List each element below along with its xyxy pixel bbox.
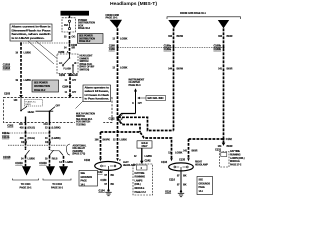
label POWER DISTRIBUTION BOX	[78, 19, 95, 30]
wire A lower	[25, 156, 27, 167]
svg-text:C242: C242	[21, 141, 28, 144]
svg-text:C1018: C1018	[39, 162, 47, 165]
svg-text:C134: C134	[161, 161, 168, 164]
triangle connector A (right feed)	[218, 20, 229, 28]
wire value 13 LG/BK	[45, 137, 61, 140]
svg-text:C241: C241	[45, 141, 52, 144]
svg-text:HEADLAMP: HEADLAMP	[123, 164, 136, 167]
wire left lamp ground	[108, 170, 110, 190]
arrow from note box to wire	[137, 97, 146, 99]
wire left low beam feed	[173, 28, 175, 130]
svg-text:PASS: PASS	[26, 103, 32, 106]
svg-text:MULTI-FUNCTION: MULTI-FUNCTION	[76, 113, 95, 115]
svg-text:SEE: SEE	[81, 173, 86, 175]
svg-text:30A: 30A	[64, 24, 68, 27]
svg-text:FLASH: FLASH	[64, 68, 72, 71]
wire left branch down	[20, 43, 22, 95]
svg-text:RIGHT: RIGHT	[195, 162, 203, 164]
svg-text:PAGE 10-2: PAGE 10-2	[78, 27, 91, 30]
svg-text:C202: C202	[7, 125, 14, 128]
svg-text:PAGE: PAGE	[199, 186, 206, 189]
triangle connector B	[46, 166, 55, 175]
wire branch to indicator	[118, 114, 136, 118]
flash-to-pass dashed box	[25, 100, 43, 107]
ground G104	[105, 189, 111, 195]
svg-text:(SHOWN): (SHOWN)	[73, 151, 83, 153]
wire main down to left headlamp	[117, 118, 119, 158]
svg-text:PAGE 10-2: PAGE 10-2	[79, 40, 91, 43]
wire indicator riser	[135, 91, 137, 114]
svg-text:BK/R: BK/R	[227, 67, 233, 70]
bracket under A	[13, 179, 39, 181]
wire stub pin A inside box	[25, 117, 27, 123]
svg-text:C264: C264	[62, 86, 69, 89]
ground G116	[178, 190, 184, 196]
wire value 19 R/LB (B)	[45, 158, 58, 161]
arrow into left headlamp pin 1	[99, 158, 102, 161]
right headlamp bulb	[169, 163, 194, 171]
svg-text:LG/BK: LG/BK	[28, 158, 36, 161]
label INSTRUMENT CLUSTER	[129, 79, 145, 87]
note box: alarm current	[10, 24, 52, 41]
switch symbol in wire A	[25, 148, 30, 156]
svg-text:LG/BK: LG/BK	[120, 139, 128, 142]
svg-text:DRL RELAY: DRL RELAY	[73, 147, 86, 150]
svg-text:O/Y: O/Y	[72, 79, 76, 82]
leader line to dimmer switch	[36, 41, 57, 58]
svg-text:TO C104: TO C104	[52, 183, 62, 186]
svg-text:C1018: C1018	[3, 156, 11, 159]
svg-text:C132: C132	[226, 138, 233, 141]
svg-text:BR: BR	[72, 47, 76, 50]
wire B upper	[49, 123, 51, 149]
svg-text:is in HEAD position.: is in HEAD position.	[12, 37, 46, 40]
node right feed junction	[222, 138, 224, 140]
svg-text:RUNNING: RUNNING	[230, 154, 241, 156]
label MULTI-FUNCTION SWITCH	[75, 112, 104, 127]
svg-text:(O/LG): (O/LG)	[28, 126, 36, 129]
label RIGHT HEADLAMP	[195, 162, 208, 167]
label FROM C268 PAGE 10-1	[106, 14, 120, 20]
svg-text:select HI beam,: select HI beam,	[85, 90, 110, 93]
wire value 106 BK/W	[168, 35, 184, 38]
wire value 8 O/Y	[132, 102, 142, 105]
svg-text:function, when switch: function, when switch	[12, 33, 52, 36]
wire value 141 BK/R	[183, 149, 198, 152]
power label HOT AT ALL TIMES	[61, 11, 90, 16]
svg-text:FOR SWITCH: FOR SWITCH	[76, 122, 91, 124]
label DAYTIME RUNNING LAMPS MODULE	[135, 172, 147, 194]
svg-text:C1016: C1016	[3, 67, 11, 70]
wire value 13 LG/BK	[45, 126, 61, 129]
svg-text:(LG/BK): (LG/BK)	[52, 137, 61, 140]
svg-text:C110b: C110b	[2, 136, 10, 139]
wire branch lower to high beams	[118, 118, 141, 132]
svg-text:PAGE 10-1: PAGE 10-1	[20, 187, 33, 190]
triangle connector C	[59, 166, 68, 175]
wire value 11 O/Y	[65, 91, 77, 94]
svg-text:106: 106	[218, 35, 223, 38]
wire right low feed horizontal	[189, 138, 224, 140]
leader line to dimmer switch 2	[28, 41, 54, 64]
svg-text:C150: C150	[100, 179, 107, 182]
svg-text:(PAGE 10-1): (PAGE 10-1)	[80, 63, 93, 66]
wire A upper	[25, 123, 27, 149]
svg-text:to Pass functions.: to Pass functions.	[85, 97, 110, 100]
node main/connector	[117, 47, 119, 49]
arrow into right headlamp pin 1	[170, 158, 173, 161]
svg-text:HEADLIGHT: HEADLIGHT	[80, 55, 94, 58]
svg-text:ADDITIONAL: ADDITIONAL	[73, 144, 87, 147]
connector label C269 pin B HI-BEAM	[59, 74, 78, 77]
wire fuse to dimmer switch	[69, 32, 71, 54]
svg-text:(DRL): (DRL)	[135, 184, 141, 186]
svg-text:BK: BK	[183, 184, 187, 187]
wire right low feed drop	[188, 139, 190, 158]
svg-text:HEAD: HEAD	[28, 111, 35, 114]
svg-text:C116: C116	[169, 178, 175, 181]
note box SEE GROUNDS (right)	[197, 177, 213, 195]
triangle connector A	[22, 166, 31, 175]
svg-text:LAMPS: LAMPS	[135, 179, 143, 182]
svg-text:HOT AT ALL TIMES: HOT AT ALL TIMES	[62, 12, 87, 16]
wire value 106 BK/R	[218, 35, 233, 38]
connector line (dashed) across three feeds	[118, 47, 224, 49]
svg-text:C169b: C169b	[213, 48, 221, 51]
svg-text:SWITCH: SWITCH	[80, 61, 89, 63]
wire value 416 O/LG	[20, 137, 35, 140]
wire value 12 LG/BK	[168, 151, 182, 154]
arrow to instrument cluster	[134, 88, 137, 91]
wire value 11 BK (C)	[59, 161, 73, 164]
svg-text:(LG/BK): (LG/BK)	[52, 126, 61, 129]
svg-text:416: 416	[20, 126, 25, 129]
label TO C104	[20, 183, 33, 190]
svg-text:MODULE: MODULE	[230, 161, 240, 163]
wire value 57 BK	[104, 174, 114, 177]
svg-text:BK/R: BK/R	[192, 149, 198, 152]
node junction fuse wire / connector	[69, 42, 71, 44]
DRL module dashed box (left)	[133, 164, 153, 195]
connector labels C168b C169b	[213, 44, 221, 51]
wire C lower	[63, 156, 65, 166]
svg-text:LG/BK: LG/BK	[120, 67, 128, 70]
connector labels C110a C110b	[2, 132, 10, 139]
svg-text:RUNNING: RUNNING	[135, 177, 146, 179]
node A/connector	[25, 132, 27, 134]
svg-text:OFF: OFF	[56, 106, 61, 108]
brace symbol	[66, 144, 70, 155]
indicator note box	[146, 96, 166, 101]
note text DRL relay	[73, 144, 87, 155]
label LEFT HEADLAMP	[123, 162, 136, 167]
svg-text:PAGE 17-2: PAGE 17-2	[135, 191, 147, 194]
note box SEE POWER DISTRIBUTION (right)	[78, 34, 104, 44]
svg-text:LG/BK: LG/BK	[175, 151, 183, 154]
node main wire crossing bus	[116, 131, 118, 133]
wire value 141 BK/R	[218, 145, 233, 148]
svg-text:BULB: BULB	[141, 143, 148, 145]
switch symbol in wire B with link to C	[49, 148, 64, 156]
wire B lower	[49, 156, 51, 167]
wire value 144 BK/W	[168, 67, 184, 70]
connector line long (dashed)	[8, 144, 66, 146]
wire value 19 LG/BK	[15, 52, 31, 55]
svg-text:BK/PK: BK/PK	[103, 139, 111, 142]
svg-text:G104: G104	[99, 189, 106, 192]
svg-text:C132: C132	[109, 117, 116, 120]
note box SEE GROUNDS (left)	[79, 171, 98, 187]
wire dimmer to multifunction switch	[69, 73, 71, 95]
svg-text:PAGE 60-4: PAGE 60-4	[129, 84, 142, 87]
node B/connector	[49, 132, 51, 134]
wire high beam bus left	[101, 132, 172, 158]
connector labels C168a C169a	[164, 44, 172, 51]
wire value 196 BK/PK	[95, 139, 111, 142]
svg-text:R/LB: R/LB	[52, 158, 58, 161]
switch contact OFF	[49, 106, 61, 112]
svg-text:GROUNDS: GROUNDS	[81, 177, 93, 179]
svg-text:LG/BK: LG/BK	[145, 155, 153, 158]
svg-text:PAGE 10-2: PAGE 10-2	[34, 89, 46, 92]
svg-text:C135: C135	[179, 159, 186, 162]
svg-text:(O/LG): (O/LG)	[28, 137, 36, 140]
svg-text:SEE POWER: SEE POWER	[34, 83, 48, 85]
svg-text:LG/BK: LG/BK	[24, 52, 32, 55]
label TO C104	[51, 183, 64, 190]
label DAYTIME RUNNING LAMPS MODULE	[230, 150, 245, 167]
wire value 14 BR	[64, 47, 75, 50]
arrow into left headlamp pin 2	[116, 158, 119, 161]
svg-text:DAYTIME: DAYTIME	[230, 150, 240, 153]
wire value 14 LG/BK (A)	[21, 158, 35, 161]
svg-text:C131: C131	[215, 148, 222, 151]
svg-text:C1018: C1018	[15, 162, 23, 165]
headlamp dimmer switch dashed box	[57, 54, 78, 73]
switch link wire	[36, 110, 54, 112]
wire left hi feed drop	[100, 132, 102, 158]
wire value 15 OG	[64, 35, 75, 38]
wire value 12 LG/BK	[112, 67, 127, 70]
svg-text:Alarm current in-flow is: Alarm current in-flow is	[12, 26, 52, 29]
svg-text:BK: BK	[111, 174, 115, 177]
node left feed/connector	[173, 47, 175, 49]
svg-text:(PAGE 17-2): (PAGE 17-2)	[73, 153, 86, 156]
connector line (dashed) across A and B	[2, 132, 50, 134]
svg-text:FROM C246 PAGE 10-1: FROM C246 PAGE 10-1	[180, 12, 206, 15]
svg-text:14-1: 14-1	[199, 190, 204, 193]
svg-text:LG/BK: LG/BK	[120, 38, 128, 41]
svg-text:BK/W: BK/W	[177, 35, 184, 38]
wire main high beam feed	[117, 28, 119, 118]
connector line C1008 (dashed)	[21, 42, 70, 44]
svg-text:PAGE 17-2: PAGE 17-2	[230, 164, 242, 167]
svg-text:C269: C269	[58, 51, 65, 54]
switch contact HEAD	[20, 98, 34, 114]
svg-text:C169: C169	[109, 48, 116, 51]
fuse F1 dashed box (power distribution box)	[62, 18, 76, 32]
wire value 57 BK	[177, 184, 187, 187]
pin arrow into switch box	[19, 95, 23, 98]
svg-text:B/C B/L IND: B/C B/L IND	[148, 98, 164, 100]
wire value 12 LG/BK	[112, 38, 127, 41]
svg-text:Headlamps (MBS-T): Headlamps (MBS-T)	[110, 1, 158, 6]
wire value 57 BK	[177, 174, 187, 177]
svg-text:196: 196	[95, 139, 100, 142]
svg-text:PAGE 10-1: PAGE 10-1	[51, 187, 64, 190]
svg-text:PAGE 10-1: PAGE 10-1	[106, 17, 119, 20]
svg-text:(PART OF M/F: (PART OF M/F	[80, 66, 95, 69]
svg-text:O/Y: O/Y	[138, 102, 142, 105]
triangle connector A (left feed)	[168, 20, 179, 28]
svg-text:PAGE: PAGE	[81, 180, 88, 183]
svg-text:O/Y: O/Y	[72, 91, 76, 94]
wire right low beam feed	[223, 28, 225, 142]
svg-text:C110a: C110a	[2, 132, 10, 135]
svg-text:G116: G116	[165, 190, 172, 193]
wire value 57 BK	[104, 183, 114, 186]
label HEADLIGHT DIMMER SWITCH	[80, 55, 95, 72]
wire value 12 LG/BK	[134, 155, 152, 158]
svg-text:DIMMER: DIMMER	[80, 58, 89, 60]
svg-text:BK: BK	[111, 183, 115, 186]
svg-text:Alarm operates to: Alarm operates to	[85, 87, 110, 90]
svg-text:SWITCH): SWITCH)	[80, 70, 90, 72]
node left wire top	[20, 42, 22, 44]
connector labels C1018 C1016	[3, 63, 11, 70]
svg-text:DISTRIBUTION: DISTRIBUTION	[79, 38, 95, 40]
svg-text:Dimmer/Flash to Pass: Dimmer/Flash to Pass	[12, 29, 52, 32]
wire bulb to DRL module	[141, 148, 143, 161]
arrow into right headlamp pin 2	[187, 158, 190, 161]
svg-text:BK/R: BK/R	[227, 145, 233, 148]
node right feed/connector	[223, 47, 225, 49]
wire value 141 BK/R	[218, 67, 233, 70]
left headlamp bulb	[95, 162, 122, 171]
bracket under B C	[43, 179, 71, 181]
svg-text:GROUNDS: GROUNDS	[199, 183, 211, 185]
connector labels C168 C169	[109, 44, 116, 51]
bracket over triangles	[167, 17, 241, 19]
svg-text:106: 106	[168, 35, 173, 38]
svg-text:LG/BK: LG/BK	[24, 79, 32, 82]
triangle connector A (top center)	[110, 20, 123, 28]
svg-text:OG: OG	[72, 35, 76, 38]
svg-text:C203: C203	[4, 92, 11, 95]
wire stub pin B inside box	[49, 111, 51, 122]
svg-text:14-1: 14-1	[81, 183, 86, 186]
wire value 11 O/Y	[65, 79, 77, 82]
svg-text:C242: C242	[145, 160, 152, 163]
svg-text:BK/R: BK/R	[227, 35, 233, 38]
svg-text:BK: BK	[183, 174, 187, 177]
svg-text:SEE POWER: SEE POWER	[79, 36, 93, 38]
junction arrow marks	[119, 115, 123, 124]
wire right lamp ground	[180, 171, 182, 191]
note box SEE POWER DISTRIBUTION (left)	[32, 80, 59, 92]
svg-text:141: 141	[183, 149, 188, 152]
wire value 12 LG/BK	[113, 139, 127, 142]
svg-text:SWITCH: SWITCH	[76, 116, 85, 118]
svg-text:C132: C132	[84, 159, 91, 162]
svg-text:ONLY: ONLY	[141, 146, 148, 148]
wire value 416 O/LG	[20, 126, 35, 129]
leader line from note box	[76, 101, 84, 109]
svg-text:LAMPS (DRL): LAMPS (DRL)	[230, 157, 245, 160]
svg-text:TESTING: TESTING	[76, 125, 86, 127]
svg-text:416: 416	[20, 137, 25, 140]
svg-text:DISTRIBUTION: DISTRIBUTION	[34, 86, 50, 88]
svg-text:FLASH-TO-: FLASH-TO-	[26, 100, 37, 103]
wire from hot box to fuse box	[69, 16, 71, 18]
svg-text:BK/W: BK/W	[177, 67, 184, 70]
svg-text:DAYTIME: DAYTIME	[135, 172, 145, 175]
svg-text:TO C104: TO C104	[21, 183, 31, 186]
arrow into DRL module	[140, 161, 144, 164]
svg-text:SEE: SEE	[199, 179, 204, 181]
bulb only box	[137, 141, 152, 148]
svg-text:C269: C269	[59, 74, 66, 77]
svg-text:C169a: C169a	[164, 48, 172, 51]
wire value 19 LG/BK	[15, 79, 31, 82]
svg-text:LO beam in Flash: LO beam in Flash	[85, 95, 110, 97]
svg-text:MODULE: MODULE	[135, 188, 145, 190]
svg-text:141: 141	[218, 67, 223, 70]
wire step link to left feed	[118, 117, 174, 130]
svg-text:SEE PAGE 90-1: SEE PAGE 90-1	[76, 118, 93, 121]
node main junction	[116, 117, 118, 119]
svg-text:LEFT: LEFT	[123, 162, 129, 164]
svg-text:HEADLAMP: HEADLAMP	[195, 164, 208, 167]
arrow into DRL module right	[222, 143, 226, 146]
connector label C269 pin A	[58, 51, 69, 54]
pin labels under box	[19, 123, 48, 126]
note box: alarm operates	[83, 85, 111, 102]
svg-text:LG/BK: LG/BK	[66, 161, 74, 164]
multi-function switch dashed box	[4, 98, 113, 123]
DRL module dashed box (right)	[220, 152, 230, 168]
svg-text:144: 144	[168, 67, 173, 70]
svg-text:LO: LO	[59, 63, 62, 65]
